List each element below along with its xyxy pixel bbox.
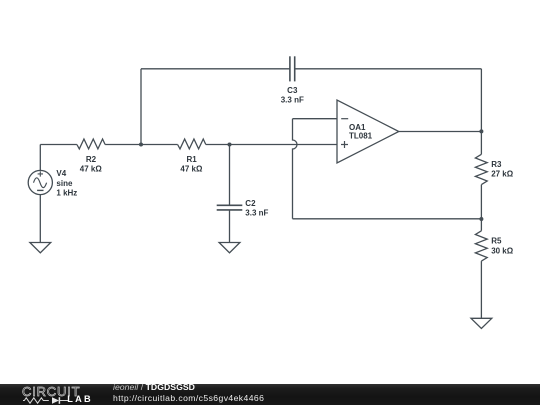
node (139, 143, 143, 147)
wire (40, 144, 77, 146)
wire (229, 210, 231, 242)
svg-text:47 kΩ: 47 kΩ (180, 165, 203, 174)
wire (39, 194, 41, 242)
svg-text:1 kHz: 1 kHz (56, 189, 77, 198)
node (479, 129, 483, 133)
wire (399, 131, 482, 133)
svg-text:C3: C3 (287, 86, 298, 95)
ground (219, 243, 240, 253)
svg-text:sine: sine (56, 179, 73, 188)
wire (206, 144, 337, 146)
resistor R3 (475, 154, 513, 184)
node (228, 143, 232, 147)
svg-text:R2: R2 (86, 155, 97, 164)
wire (293, 118, 338, 120)
wire (141, 68, 290, 70)
svg-text:30 kΩ: 30 kΩ (491, 246, 514, 255)
svg-text:3.3 nF: 3.3 nF (281, 95, 304, 104)
wire (229, 145, 231, 206)
op-amp OA1 (337, 100, 399, 163)
ground (471, 318, 492, 328)
svg-text:27 kΩ: 27 kΩ (491, 169, 514, 178)
resistor R5 (475, 231, 513, 261)
resistor R2 (77, 139, 105, 174)
wire (105, 144, 178, 146)
CircuitLab logo resistor-diode symbol (23, 396, 69, 405)
svg-text:R5: R5 (491, 237, 502, 246)
svg-text:C2: C2 (245, 199, 256, 208)
svg-text:47 kΩ: 47 kΩ (80, 165, 103, 174)
CircuitLab logo text (22, 385, 80, 398)
wire (480, 185, 482, 219)
capacitor C2 (217, 199, 269, 218)
wire (480, 219, 482, 231)
voltage source V4 (28, 169, 77, 198)
svg-text:R1: R1 (186, 155, 197, 164)
svg-text:TL081: TL081 (349, 132, 373, 141)
wire (39, 145, 41, 171)
wire (480, 131, 482, 154)
wire (480, 261, 482, 318)
svg-text:3.3 nF: 3.3 nF (245, 209, 268, 218)
node (479, 217, 483, 221)
footer url text (113, 394, 264, 403)
svg-text:R3: R3 (491, 160, 502, 169)
wire (295, 68, 482, 70)
footer bar (0, 384, 540, 405)
ground (30, 243, 51, 253)
wire (480, 69, 482, 132)
wire (293, 119, 298, 219)
resistor R1 (178, 139, 206, 174)
footer user / title text (113, 383, 195, 392)
CircuitLab logo LAB text (67, 395, 93, 404)
wire (140, 69, 142, 145)
wire (293, 218, 482, 220)
capacitor C3 (281, 56, 304, 104)
svg-text:V4: V4 (56, 169, 66, 178)
